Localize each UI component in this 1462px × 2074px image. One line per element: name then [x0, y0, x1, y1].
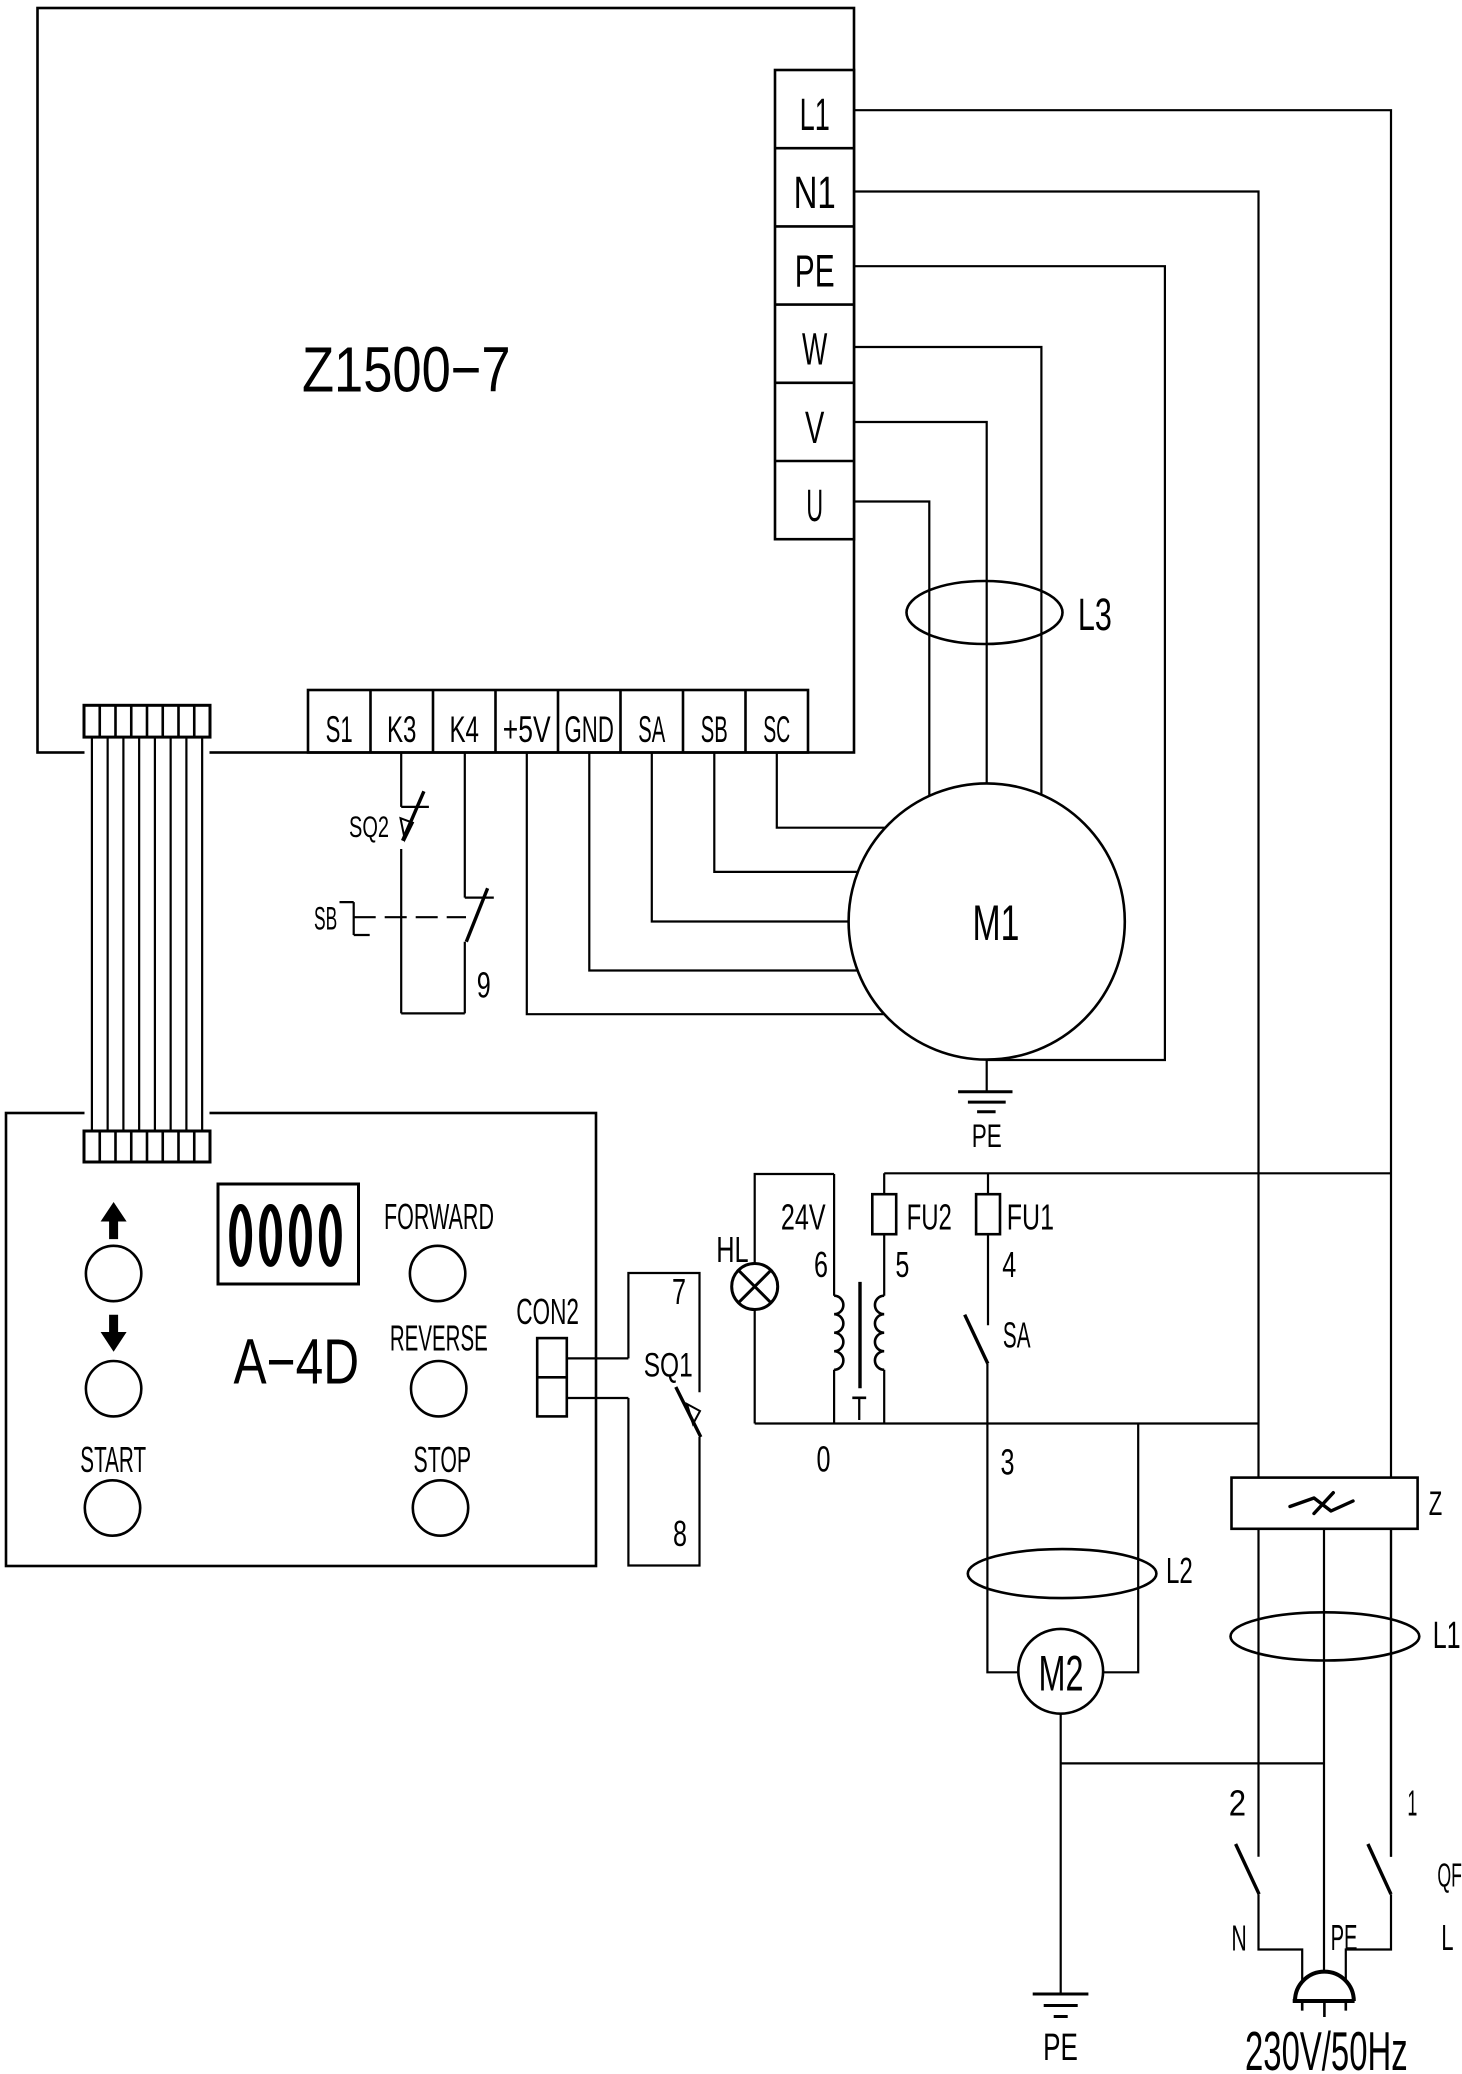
24V lamp loop	[755, 1174, 834, 1424]
svg-text:V: V	[805, 402, 824, 453]
wire M1 ground stem	[986, 1060, 988, 1092]
svg-text:24V: 24V	[781, 1196, 826, 1237]
ground symbol PE under M1	[958, 1092, 1012, 1112]
svg-text:SQ1: SQ1	[644, 1347, 693, 1385]
controller box Z1500-7	[38, 8, 855, 753]
svg-text:SB: SB	[701, 709, 728, 750]
down arrow button icon	[101, 1315, 127, 1352]
svg-text:PE: PE	[795, 245, 835, 296]
svg-text:FU2: FU2	[907, 1196, 952, 1237]
svg-text:START: START	[80, 1439, 146, 1480]
svg-text:L1: L1	[800, 89, 830, 140]
wire SA to M1	[652, 753, 849, 922]
up button	[86, 1246, 141, 1301]
breaker QF pole L blade	[1368, 1844, 1391, 1894]
svg-text:SA: SA	[1003, 1315, 1031, 1356]
pushbutton SB actuator	[340, 902, 370, 935]
wire primary top	[883, 1173, 885, 1295]
svg-text:230V/50Hz: 230V/50Hz	[1245, 2020, 1408, 2074]
fuse FU2	[872, 1194, 896, 1234]
svg-text:4: 4	[1002, 1244, 1016, 1285]
ribbon connector top	[84, 705, 210, 737]
svg-text:W: W	[802, 324, 828, 375]
limit switch SQ2 actuator arrow	[401, 818, 413, 839]
svg-text:N: N	[1231, 1918, 1246, 1959]
choke L3	[907, 581, 1063, 644]
ribbon cable to A-4D	[85, 737, 210, 1131]
svg-text:FU1: FU1	[1007, 1196, 1054, 1237]
wire K4 lower	[464, 942, 466, 1014]
start button	[85, 1480, 140, 1535]
wire L below filter	[1390, 1529, 1392, 1857]
wire bus 1 horizontal feed	[884, 1172, 1391, 1174]
wire N1 terminal to Z filter	[854, 192, 1259, 1478]
motor M1	[849, 783, 1125, 1059]
svg-text:HL: HL	[716, 1229, 748, 1270]
svg-text:U: U	[806, 480, 823, 531]
connector CON2	[537, 1338, 567, 1416]
up arrow button icon	[101, 1202, 127, 1239]
svg-text:GND: GND	[565, 709, 614, 750]
svg-text:8: 8	[673, 1513, 687, 1554]
wire GND to M1	[589, 753, 857, 971]
terminal block L1 N1 PE W V U	[775, 70, 854, 539]
svg-text:REVERSE: REVERSE	[390, 1318, 488, 1359]
svg-text:L2: L2	[1166, 1550, 1193, 1591]
EMI filter Z	[1232, 1478, 1418, 1529]
wire V terminal to M1	[854, 422, 987, 785]
svg-text:K3: K3	[387, 709, 417, 750]
wire PE terminal to M1 frame	[854, 266, 1165, 1060]
wire L to plug	[1346, 1894, 1391, 1990]
wire secondary bottom bus	[755, 1422, 1259, 1424]
wire PE from filter to plug	[1323, 1529, 1325, 1990]
svg-text:QF: QF	[1437, 1856, 1462, 1893]
breaker QF pole N blade	[1236, 1844, 1260, 1894]
wire primary bottom	[883, 1370, 885, 1424]
wire U terminal to M1	[854, 502, 929, 798]
wire K4 upper with contact bar	[465, 753, 494, 898]
wire N below filter	[1257, 1529, 1259, 1857]
svg-text:+5V: +5V	[503, 709, 551, 750]
svg-text:3: 3	[1001, 1441, 1015, 1482]
wire SB to M1	[714, 753, 858, 872]
transformer T secondary winding	[834, 1296, 843, 1370]
svg-text:S1: S1	[326, 709, 353, 750]
wire K3 lower	[400, 849, 402, 1013]
svg-text:N1: N1	[794, 167, 836, 218]
wire FU1 branch	[987, 1173, 989, 1325]
choke L1	[1231, 1612, 1420, 1660]
svg-text:M2: M2	[1039, 1646, 1084, 1702]
display 0000	[218, 1184, 359, 1284]
wire W terminal to M1	[854, 347, 1041, 796]
transformer T primary winding	[875, 1296, 884, 1370]
wire M2 to ground	[1060, 1714, 1062, 1994]
ground symbol PE under M2	[1033, 1994, 1089, 2017]
choke L2	[968, 1549, 1157, 1598]
wire CON2 pin1 to SQ1	[567, 1357, 629, 1359]
svg-text:SQ2: SQ2	[349, 811, 389, 844]
svg-text:FORWARD: FORWARD	[384, 1196, 494, 1237]
limit switch SQ2 blade	[403, 791, 424, 840]
svg-text:6: 6	[814, 1244, 828, 1285]
svg-text:L1: L1	[1433, 1615, 1461, 1657]
fuse FU1	[976, 1194, 1000, 1234]
svg-text:L3: L3	[1078, 589, 1112, 640]
wire K3 upper with contact bar	[401, 753, 429, 807]
svg-text:PE: PE	[1043, 2027, 1078, 2069]
svg-text:9: 9	[477, 964, 491, 1005]
limit switch SQ1 blade	[676, 1387, 701, 1437]
svg-text:SC: SC	[763, 709, 790, 750]
transformer T core	[858, 1282, 861, 1388]
wire CON2 pin2 to SQ1	[567, 1397, 629, 1399]
svg-text:SA: SA	[638, 709, 665, 750]
svg-text:A−4D: A−4D	[234, 1325, 360, 1397]
svg-text:2: 2	[1229, 1782, 1246, 1823]
indicator lamp HL	[732, 1264, 778, 1310]
forward button	[410, 1246, 465, 1301]
pushbutton contact 9 blade	[466, 888, 487, 941]
limit switch SQ1 box	[628, 1273, 699, 1566]
handheld pendant box A-4D	[6, 1113, 596, 1566]
wire K3-K4 bottom link	[401, 1012, 465, 1014]
mains plug 230V	[1293, 1972, 1355, 2017]
limit switch SQ1 actuator arrow	[687, 1404, 700, 1424]
wire +5V to M1	[527, 753, 885, 1015]
mechanical link dashed SB to contact 9	[354, 916, 466, 918]
svg-text:PE: PE	[972, 1118, 1002, 1154]
svg-text:CON2: CON2	[516, 1291, 579, 1332]
svg-text:Z: Z	[1429, 1485, 1443, 1523]
down button	[86, 1361, 141, 1416]
svg-text:M1: M1	[973, 895, 1020, 951]
svg-text:T: T	[852, 1390, 867, 1428]
wire SC to M1	[777, 753, 886, 828]
svg-text:L: L	[1441, 1917, 1453, 1958]
svg-text:0: 0	[817, 1438, 831, 1479]
wire N to plug	[1259, 1894, 1303, 1990]
svg-text:PE: PE	[1331, 1917, 1358, 1958]
wire L1 terminal to QF switch 1	[854, 110, 1391, 1857]
svg-text:7: 7	[672, 1271, 686, 1312]
switch SA blade	[965, 1315, 988, 1364]
svg-text:STOP: STOP	[414, 1439, 472, 1480]
terminal strip S1 K3 K4 +5V GND SA SB SC	[308, 690, 808, 753]
svg-text:K4: K4	[449, 709, 479, 750]
wire M2 frame to PE conductor	[1061, 1762, 1324, 1764]
stop button	[413, 1480, 468, 1535]
reverse button	[411, 1361, 466, 1416]
svg-text:5: 5	[895, 1244, 909, 1285]
svg-text:1: 1	[1407, 1782, 1417, 1823]
wire SA to M2 left	[987, 1364, 1018, 1673]
svg-text:Z1500−7: Z1500−7	[302, 334, 511, 406]
svg-text:SB: SB	[314, 901, 337, 937]
ribbon connector bottom	[84, 1131, 210, 1162]
wire neutral to M2 right	[1103, 1424, 1138, 1673]
motor M2	[1018, 1629, 1103, 1714]
